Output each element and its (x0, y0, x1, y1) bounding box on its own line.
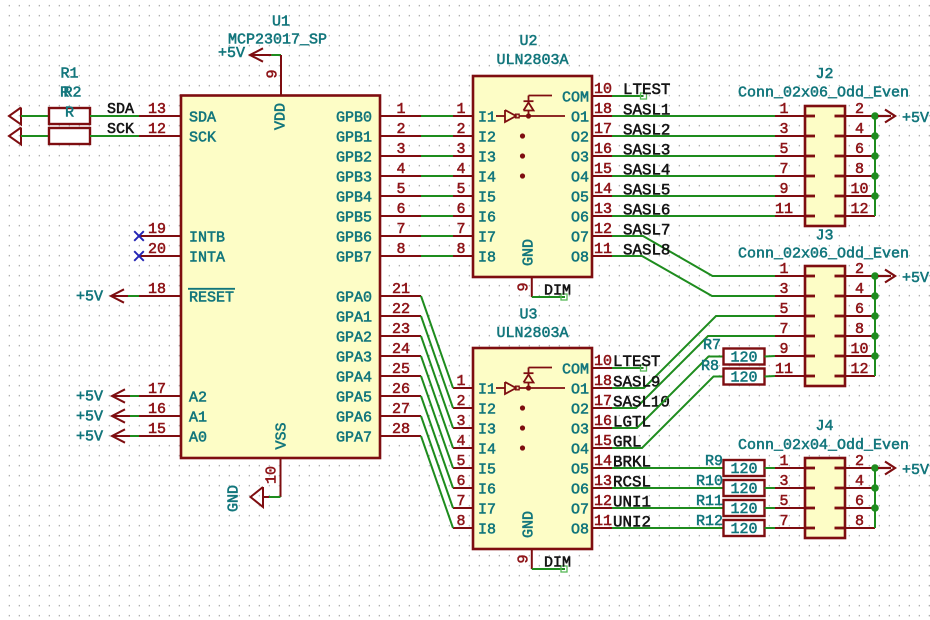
svg-text:I2: I2 (478, 402, 496, 419)
svg-text:3: 3 (779, 121, 788, 138)
svg-text:10: 10 (850, 181, 868, 198)
svg-text:13: 13 (148, 101, 166, 118)
svg-text:O1: O1 (571, 382, 589, 399)
svg-text:O8: O8 (571, 250, 589, 267)
svg-text:22: 22 (392, 301, 410, 318)
svg-text:GPA2: GPA2 (336, 330, 372, 347)
svg-text:3: 3 (779, 473, 788, 490)
svg-text:8: 8 (855, 161, 864, 178)
svg-text:120: 120 (730, 521, 757, 538)
svg-text:10: 10 (850, 341, 868, 358)
svg-text:25: 25 (392, 361, 410, 378)
svg-text:13: 13 (594, 473, 612, 490)
svg-text:4: 4 (855, 281, 864, 298)
svg-text:15: 15 (594, 433, 612, 450)
svg-text:O4: O4 (571, 442, 589, 459)
svg-text:4: 4 (396, 161, 405, 178)
svg-text:7: 7 (779, 161, 788, 178)
svg-text:GND: GND (226, 485, 243, 512)
svg-text:16: 16 (594, 141, 612, 158)
svg-text:8: 8 (855, 513, 864, 530)
svg-text:ULN2803A: ULN2803A (496, 325, 568, 342)
svg-text:GPA7: GPA7 (336, 430, 372, 447)
svg-text:20: 20 (148, 241, 166, 258)
svg-text:U2: U2 (519, 33, 537, 50)
svg-text:11: 11 (594, 513, 612, 530)
svg-text:+5V: +5V (902, 110, 929, 127)
svg-text:+5V: +5V (902, 270, 929, 287)
svg-text:6: 6 (855, 141, 864, 158)
svg-text:SASL8: SASL8 (623, 242, 670, 260)
svg-text:3: 3 (456, 141, 465, 158)
svg-text:U3: U3 (519, 307, 537, 324)
svg-text:120: 120 (730, 370, 757, 387)
svg-text:R12: R12 (696, 513, 723, 530)
svg-text:Conn_02x06_Odd_Even: Conn_02x06_Odd_Even (738, 246, 909, 263)
svg-text:17: 17 (148, 381, 166, 398)
svg-text:5: 5 (456, 181, 465, 198)
svg-text:COM: COM (562, 90, 589, 107)
svg-text:24: 24 (392, 341, 410, 358)
svg-text:19: 19 (148, 221, 166, 238)
svg-text:2: 2 (855, 261, 864, 278)
svg-text:ULN2803A: ULN2803A (496, 52, 568, 69)
svg-text:23: 23 (392, 321, 410, 338)
svg-text:O1: O1 (571, 110, 589, 127)
svg-text:7: 7 (779, 513, 788, 530)
svg-text:GPA3: GPA3 (336, 350, 372, 367)
svg-text:A0: A0 (189, 430, 207, 447)
svg-text:15: 15 (148, 421, 166, 438)
svg-text:GPA0: GPA0 (336, 290, 372, 307)
svg-text:9: 9 (779, 341, 788, 358)
svg-text:O7: O7 (571, 230, 589, 247)
svg-text:6: 6 (396, 201, 405, 218)
svg-text:3: 3 (396, 141, 405, 158)
svg-text:18: 18 (594, 373, 612, 390)
svg-text:SASL2: SASL2 (623, 122, 670, 140)
svg-text:1: 1 (456, 373, 465, 390)
svg-text:+5V: +5V (218, 45, 245, 62)
svg-text:10: 10 (594, 81, 612, 98)
svg-text:LTEST: LTEST (613, 353, 660, 371)
svg-text:11: 11 (594, 241, 612, 258)
svg-text:SASL4: SASL4 (623, 162, 670, 180)
svg-text:GPB2: GPB2 (336, 150, 372, 167)
svg-text:LGTL: LGTL (613, 414, 651, 432)
svg-text:U1: U1 (272, 14, 290, 31)
svg-text:I8: I8 (478, 250, 496, 267)
svg-text:7: 7 (456, 221, 465, 238)
svg-text:26: 26 (392, 381, 410, 398)
svg-text:GND: GND (521, 511, 538, 538)
svg-text:I7: I7 (478, 502, 496, 519)
svg-text:GPA5: GPA5 (336, 390, 372, 407)
svg-text:9: 9 (516, 282, 533, 291)
svg-text:SASL6: SASL6 (623, 202, 670, 220)
svg-text:1: 1 (456, 101, 465, 118)
svg-text:O8: O8 (571, 522, 589, 539)
svg-text:120: 120 (730, 501, 757, 518)
svg-text:16: 16 (148, 401, 166, 418)
svg-text:5: 5 (779, 493, 788, 510)
svg-text:14: 14 (594, 181, 612, 198)
svg-text:R7: R7 (703, 337, 721, 354)
svg-text:GPB7: GPB7 (336, 250, 372, 267)
svg-text:7: 7 (456, 493, 465, 510)
svg-text:6: 6 (456, 201, 465, 218)
svg-text:INTA: INTA (189, 250, 225, 267)
svg-text:SCK: SCK (189, 130, 216, 147)
svg-text:2: 2 (855, 101, 864, 118)
svg-text:R2: R2 (63, 85, 81, 102)
svg-text:12: 12 (850, 361, 868, 378)
svg-text:18: 18 (148, 281, 166, 298)
svg-text:GPA6: GPA6 (336, 410, 372, 427)
svg-text:3: 3 (456, 413, 465, 430)
svg-text:16: 16 (594, 413, 612, 430)
svg-text:I8: I8 (478, 522, 496, 539)
svg-text:GPA1: GPA1 (336, 310, 372, 327)
svg-text:A2: A2 (189, 390, 207, 407)
svg-text:UNI2: UNI2 (613, 514, 651, 532)
svg-text:I3: I3 (478, 150, 496, 167)
svg-text:27: 27 (392, 401, 410, 418)
svg-text:I7: I7 (478, 230, 496, 247)
svg-text:GPB4: GPB4 (336, 190, 372, 207)
svg-text:RCSL: RCSL (613, 474, 651, 492)
svg-text:15: 15 (594, 161, 612, 178)
svg-text:I1: I1 (478, 382, 496, 399)
svg-text:O6: O6 (571, 210, 589, 227)
svg-text:8: 8 (456, 513, 465, 530)
svg-text:BRKL: BRKL (613, 454, 651, 472)
svg-text:I2: I2 (478, 130, 496, 147)
svg-text:2: 2 (456, 121, 465, 138)
svg-text:INTB: INTB (189, 230, 225, 247)
svg-text:Conn_02x04_Odd_Even: Conn_02x04_Odd_Even (738, 437, 909, 454)
svg-text:4: 4 (855, 473, 864, 490)
svg-text:LTEST: LTEST (623, 81, 670, 99)
svg-text:SASL5: SASL5 (623, 182, 670, 200)
svg-text:9: 9 (779, 181, 788, 198)
svg-text:R: R (65, 105, 74, 122)
svg-text:12: 12 (850, 201, 868, 218)
svg-text:GND: GND (521, 239, 538, 266)
svg-text:UNI1: UNI1 (613, 494, 651, 512)
svg-text:+5V: +5V (902, 462, 929, 479)
svg-text:17: 17 (594, 393, 612, 410)
svg-text:R8: R8 (701, 358, 719, 375)
svg-text:O3: O3 (571, 150, 589, 167)
svg-text:5: 5 (779, 301, 788, 318)
svg-text:+5V: +5V (76, 409, 103, 426)
svg-text:5: 5 (396, 181, 405, 198)
svg-text:SDA: SDA (189, 110, 216, 127)
svg-text:120: 120 (730, 481, 757, 498)
svg-text:I6: I6 (478, 482, 496, 499)
svg-text:1: 1 (779, 453, 788, 470)
svg-text:2: 2 (396, 121, 405, 138)
svg-text:GPB5: GPB5 (336, 210, 372, 227)
svg-text:O6: O6 (571, 482, 589, 499)
svg-text:12: 12 (148, 121, 166, 138)
svg-text:I1: I1 (478, 110, 496, 127)
svg-text:7: 7 (396, 221, 405, 238)
svg-text:120: 120 (730, 350, 757, 367)
svg-text:J2: J2 (815, 66, 833, 83)
svg-text:28: 28 (392, 421, 410, 438)
svg-text:I4: I4 (478, 442, 496, 459)
svg-text:6: 6 (855, 301, 864, 318)
svg-text:1: 1 (779, 261, 788, 278)
svg-text:I6: I6 (478, 210, 496, 227)
svg-text:I3: I3 (478, 422, 496, 439)
svg-text:5: 5 (779, 141, 788, 158)
svg-text:Conn_02x06_Odd_Even: Conn_02x06_Odd_Even (738, 85, 909, 102)
svg-text:R9: R9 (705, 453, 723, 470)
svg-text:1: 1 (779, 101, 788, 118)
svg-text:12: 12 (594, 493, 612, 510)
svg-text:9: 9 (516, 554, 533, 563)
svg-text:9: 9 (265, 69, 282, 78)
svg-text:GRL: GRL (613, 434, 641, 452)
svg-text:COM: COM (562, 362, 589, 379)
svg-text:DIM: DIM (544, 555, 571, 572)
svg-text:11: 11 (775, 201, 793, 218)
svg-text:13: 13 (594, 201, 612, 218)
svg-text:O5: O5 (571, 190, 589, 207)
svg-text:4: 4 (456, 433, 465, 450)
svg-text:R11: R11 (696, 493, 723, 510)
svg-text:O7: O7 (571, 502, 589, 519)
svg-text:11: 11 (775, 361, 793, 378)
svg-text:R10: R10 (696, 473, 723, 490)
svg-text:5: 5 (456, 453, 465, 470)
svg-text:6: 6 (855, 493, 864, 510)
svg-text:8: 8 (396, 241, 405, 258)
svg-text:120: 120 (730, 461, 757, 478)
svg-text:I5: I5 (478, 190, 496, 207)
svg-text:SASL9: SASL9 (613, 374, 660, 392)
svg-text:SCK: SCK (107, 121, 134, 138)
svg-text:O2: O2 (571, 130, 589, 147)
svg-text:O5: O5 (571, 462, 589, 479)
svg-text:SDA: SDA (107, 101, 134, 118)
svg-text:4: 4 (456, 161, 465, 178)
svg-text:GPA4: GPA4 (336, 370, 372, 387)
svg-text:A1: A1 (189, 410, 207, 427)
svg-text:VDD: VDD (273, 103, 290, 130)
svg-text:VSS: VSS (274, 422, 291, 449)
svg-text:2: 2 (456, 393, 465, 410)
svg-text:+5V: +5V (76, 389, 103, 406)
svg-text:+5V: +5V (76, 289, 103, 306)
svg-text:J4: J4 (815, 418, 833, 435)
svg-text:21: 21 (392, 281, 410, 298)
svg-text:I4: I4 (478, 170, 496, 187)
svg-text:SASL3: SASL3 (623, 142, 670, 160)
svg-text:6: 6 (456, 473, 465, 490)
svg-text:17: 17 (594, 121, 612, 138)
svg-text:DIM: DIM (544, 283, 571, 300)
svg-text:O4: O4 (571, 170, 589, 187)
svg-text:8: 8 (456, 241, 465, 258)
svg-text:2: 2 (855, 453, 864, 470)
svg-text:SASL1: SASL1 (623, 102, 670, 120)
svg-text:SASL7: SASL7 (623, 222, 670, 240)
svg-text:12: 12 (594, 221, 612, 238)
svg-text:18: 18 (594, 101, 612, 118)
svg-text:10: 10 (264, 466, 281, 484)
svg-text:14: 14 (594, 453, 612, 470)
svg-text:GPB1: GPB1 (336, 130, 372, 147)
svg-text:10: 10 (594, 353, 612, 370)
svg-text:GPB0: GPB0 (336, 110, 372, 127)
svg-text:4: 4 (855, 121, 864, 138)
svg-text:I5: I5 (478, 462, 496, 479)
svg-text:GPB6: GPB6 (336, 230, 372, 247)
svg-text:8: 8 (855, 321, 864, 338)
svg-text:RESET: RESET (189, 290, 234, 307)
svg-text:R1: R1 (60, 66, 78, 83)
svg-text:7: 7 (779, 321, 788, 338)
svg-text:GPB3: GPB3 (336, 170, 372, 187)
svg-text:+5V: +5V (76, 429, 103, 446)
svg-text:J3: J3 (815, 228, 833, 245)
svg-text:3: 3 (779, 281, 788, 298)
svg-text:O3: O3 (571, 422, 589, 439)
svg-text:O2: O2 (571, 402, 589, 419)
svg-text:1: 1 (396, 101, 405, 118)
